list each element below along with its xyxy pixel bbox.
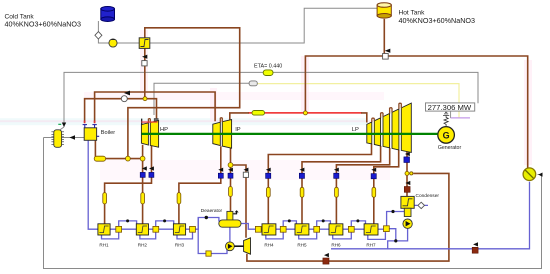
svg-text:RH5: RH5 [297, 243, 307, 248]
svg-text:IP: IP [235, 127, 241, 133]
svg-text:ETA= 0.440: ETA= 0.440 [254, 63, 282, 69]
svg-text:Deaerator: Deaerator [201, 208, 223, 214]
svg-text:RH6: RH6 [331, 243, 341, 248]
svg-text:RH7: RH7 [366, 243, 376, 248]
svg-text:LP: LP [352, 127, 359, 133]
svg-text:277.306 MW: 277.306 MW [428, 103, 472, 112]
svg-text:G: G [443, 130, 450, 140]
svg-text:40%KNO3+60%NaNO3: 40%KNO3+60%NaNO3 [399, 16, 476, 25]
svg-text:RH3: RH3 [175, 243, 185, 248]
svg-text:Condenser: Condenser [416, 193, 440, 199]
svg-text:RH2: RH2 [138, 243, 148, 248]
svg-text:Generator: Generator [438, 145, 462, 151]
svg-text:RH1: RH1 [99, 243, 109, 248]
svg-text:HP: HP [160, 127, 168, 133]
svg-text:40%KNO3+60%NaNO3: 40%KNO3+60%NaNO3 [5, 19, 82, 28]
svg-text:RH4: RH4 [264, 243, 274, 248]
svg-text:Boiler: Boiler [101, 130, 115, 136]
